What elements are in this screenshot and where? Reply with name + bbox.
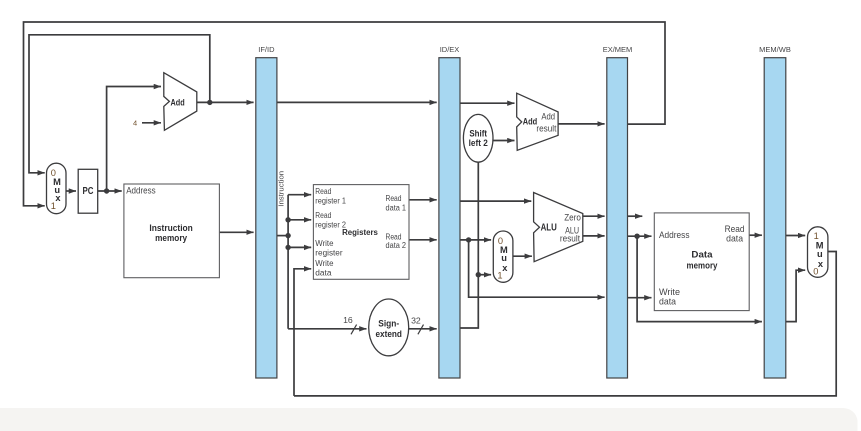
svg-text:data: data	[659, 296, 676, 306]
wire branch feedback EX/MEM to PC mux input 1	[24, 22, 666, 206]
wire read data MEM/WB to writeback mux input 1	[786, 235, 805, 237]
wire instruction out of IF/ID	[277, 235, 288, 237]
svg-text:Write: Write	[315, 239, 334, 248]
svg-text:EX/MEM: EX/MEM	[603, 45, 633, 54]
wire read data 1 ID/EX to ALU	[460, 200, 531, 202]
wire PC+4 IF/ID to ID/EX	[277, 101, 437, 103]
svg-text:Add: Add	[541, 111, 555, 121]
svg-text:register 1: register 1	[315, 197, 346, 206]
svg-text:result: result	[536, 124, 556, 134]
junction instruction write register	[285, 245, 290, 250]
wire Add output to IF/ID	[197, 101, 254, 103]
instruction memory	[124, 184, 219, 278]
pipeline register EX/MEM	[607, 58, 628, 378]
mux M1 PC source	[47, 163, 67, 214]
svg-text:16: 16	[343, 315, 353, 325]
wire ALU result MEM/WB to writeback mux input 0	[786, 270, 805, 321]
data memory	[654, 213, 749, 311]
wire to read register 1	[288, 194, 311, 196]
wire ALU mux to ALU	[513, 255, 532, 257]
svg-text:left 2: left 2	[469, 138, 488, 148]
svg-text:Read: Read	[386, 232, 402, 241]
slash 32	[418, 325, 424, 335]
svg-text:x: x	[502, 263, 508, 273]
svg-text:u: u	[501, 253, 507, 263]
pipeline register IF/ID	[256, 58, 277, 378]
wire writeback mux output to registers write data	[294, 252, 836, 396]
wire read data 2 ID/EX to ALU mux	[460, 239, 491, 241]
svg-text:Add: Add	[171, 97, 185, 107]
svg-text:Write: Write	[315, 259, 334, 268]
svg-text:4: 4	[133, 119, 137, 128]
wire to write register	[288, 246, 311, 248]
pipeline register ID/EX	[439, 58, 460, 378]
wire to sign-extend	[288, 328, 366, 330]
svg-text:Instruction: Instruction	[277, 171, 286, 207]
svg-text:x: x	[55, 193, 61, 203]
junction read data 2	[466, 237, 471, 242]
mux M3 writeback	[808, 227, 828, 277]
svg-text:data: data	[315, 269, 332, 278]
svg-text:Read: Read	[315, 187, 331, 196]
adder Add2 branch target	[517, 93, 558, 150]
svg-text:1: 1	[814, 231, 819, 241]
wire Zero to EX/MEM	[583, 215, 605, 217]
svg-text:Sign-: Sign-	[378, 318, 399, 328]
junction immediate to mux	[476, 272, 481, 277]
wire 4 to Add	[142, 122, 161, 124]
slash 16	[351, 325, 357, 335]
svg-text:result: result	[560, 233, 580, 243]
svg-text:register: register	[315, 248, 343, 257]
svg-text:1: 1	[497, 271, 502, 281]
register PC	[78, 169, 98, 213]
svg-text:1: 1	[51, 201, 56, 211]
alu ALU	[534, 193, 583, 262]
sign-extend unit	[369, 299, 409, 356]
junction ALU result to address	[634, 234, 639, 239]
svg-text:Read: Read	[386, 194, 402, 203]
wire shift left 2 to Add2	[493, 140, 514, 142]
svg-text:memory: memory	[155, 233, 188, 244]
wire mux to PC	[66, 190, 76, 192]
shifter Shift left 2	[463, 114, 493, 162]
svg-text:Address: Address	[126, 186, 156, 196]
svg-text:u: u	[817, 249, 823, 259]
pipeline register MEM/WB	[764, 58, 786, 378]
svg-text:data 1: data 1	[386, 203, 407, 212]
junction Add output	[207, 100, 212, 105]
wire immediate ID/EX right to shift left 2	[460, 162, 478, 328]
registers file	[313, 185, 409, 280]
wire read data 1 to ID/EX	[409, 199, 437, 201]
svg-text:MEM/WB: MEM/WB	[759, 45, 791, 54]
svg-text:Data: Data	[691, 249, 713, 260]
svg-text:data 2: data 2	[386, 241, 407, 250]
junction instruction entry	[285, 233, 290, 238]
wire Add2 result to EX/MEM	[558, 123, 605, 125]
bottom gray strip	[0, 408, 858, 431]
wire Zero out of EX/MEM	[628, 215, 643, 217]
svg-text:Registers: Registers	[342, 227, 378, 237]
wire read data 2 to ID/EX	[409, 239, 437, 241]
wire read data 2 down to EX/MEM write data	[469, 240, 605, 297]
svg-text:ALU: ALU	[541, 223, 557, 234]
svg-text:0: 0	[813, 266, 818, 276]
svg-text:Address: Address	[659, 230, 690, 240]
svg-text:Add: Add	[523, 116, 538, 126]
svg-text:Zero: Zero	[564, 212, 581, 222]
wire ALU result EX/MEM to data memory address	[628, 235, 652, 237]
wire instruction memory to IF/ID	[219, 231, 253, 233]
svg-text:extend: extend	[375, 329, 402, 339]
svg-text:data: data	[726, 234, 743, 244]
wire sign-extend to ID/EX	[409, 328, 437, 330]
svg-text:32: 32	[411, 316, 421, 326]
wire to read register 2	[288, 219, 311, 221]
svg-text:PC: PC	[83, 186, 94, 197]
svg-text:Read: Read	[315, 211, 331, 220]
mux M2 ALU operand	[493, 231, 513, 282]
wire writeback up to write data	[294, 269, 311, 396]
adder Add PC+4	[164, 73, 197, 131]
wire PC to instruction memory address	[98, 190, 122, 192]
svg-text:memory: memory	[687, 260, 718, 271]
wire PC+4 ID/EX to Add2	[460, 102, 515, 104]
wire read data to MEM/WB	[749, 234, 762, 236]
wire ALU result down to MEM/WB	[637, 236, 762, 321]
wire PC up to Add	[107, 87, 161, 192]
wire instruction vertical bus	[287, 195, 289, 329]
junction PC out	[104, 188, 109, 193]
wire ALU result to EX/MEM	[583, 235, 605, 237]
wire write data EX/MEM to data memory	[628, 297, 652, 299]
svg-text:ID/EX: ID/EX	[440, 45, 460, 54]
wire immediate branch to ALU mux input 1	[478, 274, 491, 276]
wire PC+4 feedback Add output to PC mux input 0	[29, 35, 210, 173]
svg-text:x: x	[818, 259, 824, 269]
svg-text:IF/ID: IF/ID	[258, 45, 275, 54]
junction instruction read register 2	[285, 217, 290, 222]
